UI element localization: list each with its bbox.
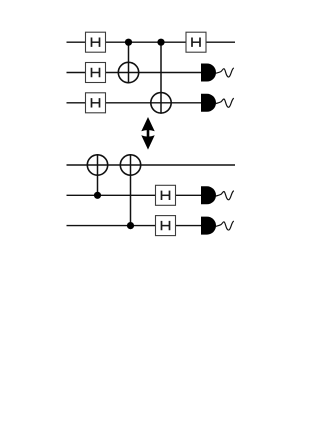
target XOR CNOT1 q0 bottom circuit	[87, 155, 107, 175]
wire q1 top circuit	[67, 72, 202, 74]
control dot CNOT2 q2 bottom circuit	[127, 222, 134, 229]
control dot CNOT1 q1 bottom circuit	[94, 192, 101, 199]
gate H q2 bottom circuit	[156, 216, 176, 236]
target XOR CNOT2 q2 top circuit	[151, 93, 171, 113]
wire q2 bottom circuit	[67, 225, 202, 227]
equivalence double arrow	[141, 117, 154, 150]
control dot CNOT2 q0 top circuit	[157, 39, 164, 46]
wire q1 bottom circuit	[67, 194, 202, 196]
target XOR CNOT2 q0 bottom circuit	[120, 155, 140, 175]
gate H q1 top circuit	[86, 63, 106, 83]
gate H q1 bottom circuit	[156, 185, 176, 205]
wire vertical CNOT1 connector bottom circuit	[97, 154, 99, 195]
gate H q0 left top circuit	[86, 32, 106, 52]
wire q2 top circuit	[67, 102, 202, 104]
gate H q2 top circuit	[86, 93, 106, 113]
meter q1 top circuit	[201, 64, 234, 82]
target XOR CNOT1 q1 top circuit	[118, 62, 138, 82]
wire vertical CNOT2 connector bottom circuit	[130, 154, 132, 226]
meter q2 bottom circuit	[201, 217, 234, 235]
wire q0 top circuit	[67, 41, 236, 43]
wire q0 bottom circuit	[67, 164, 236, 166]
gate H q0 right top circuit	[186, 32, 206, 52]
meter q1 bottom circuit	[201, 186, 234, 204]
control dot CNOT1 q0 top circuit	[125, 39, 132, 46]
meter q2 top circuit	[201, 94, 234, 112]
wire vertical CNOT2 connector top circuit	[160, 42, 162, 114]
wire vertical CNOT1 connector top circuit	[128, 42, 130, 83]
